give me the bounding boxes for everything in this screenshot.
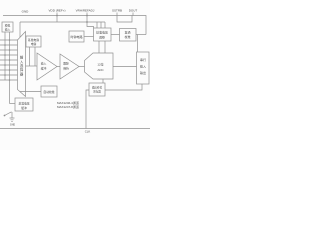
- svg-text:MAX1247-8通道: MAX1247-8通道: [57, 104, 79, 109]
- svg-text:ADC: ADC: [97, 68, 104, 72]
- svg-text:跟踪: 跟踪: [63, 62, 69, 66]
- svg-text:直通: 直通: [124, 30, 130, 35]
- svg-text:CLK: CLK: [85, 130, 91, 134]
- svg-text:SSTRB: SSTRB: [112, 9, 122, 13]
- svg-text:寄存器: 寄存器: [93, 90, 101, 94]
- svg-text:基准电压: 基准电压: [96, 30, 108, 35]
- svg-text:校准: 校准: [124, 34, 130, 39]
- svg-text:输出: 输出: [140, 70, 146, 75]
- svg-text:串行: 串行: [140, 57, 146, 62]
- svg-text:输入: 输入: [5, 28, 11, 32]
- svg-text:基准电压: 基准电压: [18, 102, 29, 106]
- svg-text:输出移位: 输出移位: [92, 86, 103, 90]
- svg-text:自动校准: 自动校准: [43, 90, 54, 94]
- svg-text:电容: 电容: [31, 42, 37, 46]
- svg-text:VDD (REF+): VDD (REF+): [49, 9, 66, 13]
- svg-text:缓冲: 缓冲: [21, 106, 27, 110]
- svg-text:器: 器: [20, 72, 24, 76]
- svg-text:12位: 12位: [97, 62, 103, 67]
- svg-text:GND: GND: [10, 124, 16, 127]
- svg-text:输入: 输入: [140, 64, 146, 69]
- svg-text:缓冲: 缓冲: [41, 67, 47, 71]
- svg-text:DOUT: DOUT: [129, 9, 138, 13]
- svg-text:保持: 保持: [63, 67, 69, 71]
- svg-text:GND: GND: [22, 10, 30, 14]
- svg-text:调整: 调整: [99, 35, 105, 40]
- svg-text:时钟电路: 时钟电路: [70, 34, 82, 39]
- svg-text:输入: 输入: [41, 62, 47, 66]
- svg-text:VRH/REFADJ: VRH/REFADJ: [76, 9, 95, 13]
